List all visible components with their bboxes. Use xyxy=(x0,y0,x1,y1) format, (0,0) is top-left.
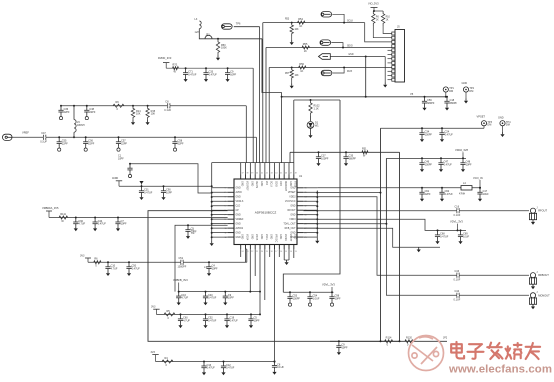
svg-text:DM: DM xyxy=(506,124,510,127)
capacitor C50 0.47UF xyxy=(126,262,131,271)
svg-text:0.47UF: 0.47UF xyxy=(445,193,454,196)
resistor R10 1K xyxy=(381,11,384,26)
capacitor C16b 0.1UF series xyxy=(457,208,459,213)
svg-text:GND: GND xyxy=(290,206,295,208)
svg-text:ADF5610BCCZ: ADF5610BCCZ xyxy=(255,211,277,215)
svg-text:GND: GND xyxy=(270,234,272,239)
testpoint oval MUX xyxy=(321,70,332,75)
wire U1 bottom pin risers xyxy=(240,249,242,257)
inductor L5 180NH xyxy=(74,106,76,138)
svg-text:1.1K: 1.1K xyxy=(314,108,319,111)
capacitor C10 4.7UF xyxy=(105,262,110,271)
svg-text:R57: R57 xyxy=(285,73,290,75)
capacitor C36 22PF xyxy=(58,106,63,115)
capacitor C90b 10PF xyxy=(185,225,190,234)
svg-text:C47: C47 xyxy=(41,132,46,135)
svg-text:DM: DM xyxy=(487,124,491,127)
power tick VIO xyxy=(371,7,378,9)
wire VPSET trunk xyxy=(317,192,380,194)
svg-text:100PF: 100PF xyxy=(293,297,301,300)
svg-text:VREF: VREF xyxy=(22,131,29,135)
svg-text:1K: 1K xyxy=(299,25,302,28)
wire row3 gnd xyxy=(330,56,385,58)
svg-text:1uH: 1uH xyxy=(195,31,200,34)
capacitor C5 10PF xyxy=(248,314,253,323)
wire left pin rows to collector xyxy=(212,187,228,189)
svg-text:0.1UF: 0.1UF xyxy=(277,366,284,369)
svg-text:100K: 100K xyxy=(221,47,227,50)
capacitor C34 100PF xyxy=(419,128,424,137)
svg-text:10K: 10K xyxy=(136,113,141,116)
wire C1 spur xyxy=(130,164,212,193)
resistor R15 10K xyxy=(147,105,149,107)
svg-text:16: 16 xyxy=(280,251,282,253)
ground xyxy=(500,132,504,137)
wire xyxy=(291,36,293,40)
svg-text:0.47UF: 0.47UF xyxy=(209,73,218,76)
svg-text:10PF: 10PF xyxy=(230,73,236,76)
capacitor C37 100PF xyxy=(316,152,321,161)
resistor R14 10K xyxy=(132,105,134,107)
capacitor C80 0.1UF xyxy=(274,361,276,363)
svg-text:100PF: 100PF xyxy=(321,157,329,160)
svg-text:0.47UF: 0.47UF xyxy=(98,223,107,226)
svg-text:SDIO: SDIO xyxy=(347,45,353,47)
U1 bottom pin stubs xyxy=(241,245,294,250)
capacitor C9 10PF xyxy=(225,68,230,77)
wire riser bundle xyxy=(245,106,247,163)
wire VDVL rail xyxy=(283,291,333,293)
svg-text:R111: R111 xyxy=(60,213,66,216)
svg-text:VGND: VGND xyxy=(284,234,286,241)
wire rail A xyxy=(290,151,400,153)
svg-text:10PF: 10PF xyxy=(212,267,218,270)
svg-text:TDAL_OUT: TDAL_OUT xyxy=(283,223,296,226)
wire gnd pair xyxy=(284,259,289,261)
wire VPSET rail xyxy=(381,127,485,129)
svg-text:0.1UF: 0.1UF xyxy=(164,109,171,112)
watermark text dianzifashaoyou xyxy=(451,342,464,359)
testpoint TP3 xyxy=(481,121,486,126)
svg-text:JP2: JP2 xyxy=(443,336,448,339)
svg-text:R70: R70 xyxy=(173,64,178,67)
wire VREF rail xyxy=(12,136,256,138)
wire 1000pf link xyxy=(147,261,149,263)
connector J2 RFBOUT xyxy=(529,273,536,285)
svg-text:V5: V5 xyxy=(410,92,414,96)
svg-text:10PF: 10PF xyxy=(121,223,127,226)
capacitor C69 10UF xyxy=(458,230,463,239)
svg-text:AVDD: AVDD xyxy=(112,177,119,180)
wire VDVL trunk xyxy=(283,100,340,292)
svg-text:38: 38 xyxy=(246,173,248,175)
wire MONOUT trunk xyxy=(303,224,529,296)
wire xyxy=(246,249,248,262)
wire VDD2 rail xyxy=(386,157,466,159)
wire AVDD row xyxy=(119,185,212,187)
svg-text:0.1UF: 0.1UF xyxy=(40,141,47,144)
svg-text:RFB_OUT: RFB_OUT xyxy=(285,228,296,230)
watermark logo circle xyxy=(409,336,444,371)
svg-text:10PF: 10PF xyxy=(342,346,348,349)
svg-text:SDIO: SDIO xyxy=(274,181,276,187)
wire bottom rail right xyxy=(330,340,447,342)
capacitor C35 680PF xyxy=(343,152,348,161)
wire left gnd collector xyxy=(211,163,213,241)
svg-text:18: 18 xyxy=(270,251,272,253)
svg-text:22PF: 22PF xyxy=(62,142,68,145)
U1 top pin stubs xyxy=(241,175,294,180)
svg-text:RFBOUT: RFBOUT xyxy=(538,273,549,277)
capacitor C90c 10PF xyxy=(223,292,228,301)
wire xyxy=(373,26,392,38)
svg-text:GND: GND xyxy=(294,234,296,239)
svg-text:VDVL: VDVL xyxy=(265,234,267,241)
svg-text:VPSET: VPSET xyxy=(288,192,296,194)
svg-text:GND: GND xyxy=(241,181,243,186)
svg-text:0.47UF: 0.47UF xyxy=(144,191,153,194)
svg-text:10PF: 10PF xyxy=(118,158,124,161)
ground xyxy=(417,247,421,252)
ground xyxy=(285,260,289,265)
ground xyxy=(216,56,220,61)
svg-text:0.47UF: 0.47UF xyxy=(208,297,217,300)
ground xyxy=(464,99,468,104)
svg-text:0.1UF: 0.1UF xyxy=(454,278,461,281)
capacitor C51 1000PF series xyxy=(181,260,183,265)
svg-text:48: 48 xyxy=(295,173,297,175)
svg-text:VRFB: VRFB xyxy=(255,234,257,241)
resistor R4 0 xyxy=(162,360,173,363)
svg-text:1K: 1K xyxy=(300,70,303,73)
capacitor C14 4.7UF xyxy=(73,218,78,227)
svg-text:C51: C51 xyxy=(179,257,184,260)
wire VRBDFA rail xyxy=(49,217,228,219)
connector P1 VREF input xyxy=(3,134,13,140)
svg-text:VDD2_3V8: VDD2_3V8 xyxy=(455,148,469,152)
capacitor C98 10PF xyxy=(329,292,334,301)
svg-text:0.47UF: 0.47UF xyxy=(226,367,235,370)
svg-text:GND: GND xyxy=(236,224,241,226)
wire xyxy=(199,29,262,39)
svg-text:GND: GND xyxy=(236,237,241,239)
svg-text:GND: GND xyxy=(250,234,252,239)
svg-text:22PF: 22PF xyxy=(64,111,70,114)
svg-text:GND: GND xyxy=(279,234,281,239)
svg-text:22PF: 22PF xyxy=(121,142,127,145)
U1 left pin stubs xyxy=(228,188,234,237)
capacitor C52 0.47UF xyxy=(203,314,208,323)
svg-text:47NH: 47NH xyxy=(459,193,465,196)
svg-text:10K: 10K xyxy=(295,75,300,77)
svg-text:0.47UF: 0.47UF xyxy=(445,133,454,136)
svg-text:VDD4: VDD4 xyxy=(245,234,247,241)
svg-text:VPSET: VPSET xyxy=(477,115,486,119)
capacitor C47 0.1UF series xyxy=(44,135,46,140)
svg-text:AVDD: AVDD xyxy=(236,191,243,194)
capacitor C19 0.47UF xyxy=(224,314,229,323)
svg-text:R55: R55 xyxy=(303,43,308,46)
testpoint oval SDIO xyxy=(320,40,331,45)
capacitor C8 0.1UF series xyxy=(168,103,170,108)
wire header stubs xyxy=(388,49,392,51)
svg-text:15: 15 xyxy=(285,251,287,253)
svg-text:20: 20 xyxy=(261,251,263,253)
svg-text:22: 22 xyxy=(251,251,253,253)
svg-text:J: J xyxy=(536,272,537,274)
wire RVDD rail xyxy=(166,67,253,69)
svg-text:10PF: 10PF xyxy=(191,230,197,233)
wire TP6 to riser xyxy=(234,26,260,28)
svg-text:4.7UF: 4.7UF xyxy=(78,223,85,226)
resistor R53 pulldown xyxy=(291,22,293,24)
svg-text:MUX: MUX xyxy=(347,71,353,73)
svg-text:3V3: 3V3 xyxy=(151,351,156,354)
wire VRBFB rail xyxy=(179,291,260,293)
svg-text:VBATT: VBATT xyxy=(289,234,292,242)
svg-text:0.47UF: 0.47UF xyxy=(208,320,217,323)
svg-text:24: 24 xyxy=(242,251,244,253)
svg-text:17: 17 xyxy=(275,251,277,253)
wire rail A trunk xyxy=(399,152,401,341)
svg-text:VDDLS: VDDLS xyxy=(236,201,244,203)
svg-text:R120: R120 xyxy=(406,337,413,340)
capacitor C12 0.47UF xyxy=(221,362,226,371)
wire row1 SCLK xyxy=(263,22,365,24)
svg-text:GND: GND xyxy=(289,181,291,186)
wire big loop left xyxy=(148,211,400,342)
ground xyxy=(131,120,135,125)
resistor R70 series xyxy=(173,67,179,70)
capacitor C95 10PF xyxy=(336,341,341,350)
svg-text:VRBDFA_3V5: VRBDFA_3V5 xyxy=(42,206,59,210)
ground xyxy=(210,241,214,246)
svg-text:1K: 1K xyxy=(304,50,307,53)
svg-text:22PF: 22PF xyxy=(178,142,184,145)
wire row2 SDIO xyxy=(266,47,392,49)
wire JP1 trunk xyxy=(262,39,282,93)
resistor R50 100K xyxy=(216,39,219,56)
power arrow xyxy=(139,181,143,184)
svg-text:0.47UF: 0.47UF xyxy=(188,73,197,76)
wire row1 to header xyxy=(365,23,392,42)
wire R5 rail xyxy=(156,313,260,315)
wire VTUNE row xyxy=(303,219,466,230)
ground xyxy=(308,133,312,138)
svg-text:VDVL_3V3: VDVL_3V3 xyxy=(322,283,335,287)
svg-text:GND: GND xyxy=(241,234,243,239)
capacitor C62 0.47UF xyxy=(439,188,444,197)
resistor R57 pulldown xyxy=(291,67,293,69)
svg-text:10UF: 10UF xyxy=(463,236,470,239)
svg-text:R53: R53 xyxy=(285,19,290,21)
svg-text:VCO_IN: VCO_IN xyxy=(473,176,483,180)
svg-text:GND: GND xyxy=(290,215,295,217)
testpoint pennant GND xyxy=(319,54,331,60)
capacitor C60 4.7UF xyxy=(178,314,183,323)
svg-text:GND: GND xyxy=(260,234,262,239)
svg-text:GND: GND xyxy=(462,82,468,85)
wire row4 MUXOUT xyxy=(269,67,392,69)
svg-text:22PF: 22PF xyxy=(88,142,94,145)
capacitor C46 100PF xyxy=(419,158,424,167)
svg-text:21: 21 xyxy=(256,251,258,253)
svg-text:43: 43 xyxy=(270,173,272,175)
svg-text:45: 45 xyxy=(280,173,282,175)
svg-text:VDD3: VDD3 xyxy=(289,219,296,221)
svg-text:10PF: 10PF xyxy=(166,191,172,194)
svg-text:0.47UF: 0.47UF xyxy=(207,367,216,370)
wire V5 trunk xyxy=(282,96,446,98)
svg-text:22PF: 22PF xyxy=(89,111,95,114)
svg-text:0.47UF: 0.47UF xyxy=(444,163,453,166)
svg-text:J: J xyxy=(536,292,537,294)
svg-text:10PF: 10PF xyxy=(335,297,341,300)
node on JP1 rail xyxy=(217,38,219,40)
resistor R55 series row2 xyxy=(302,46,310,49)
svg-text:GND: GND xyxy=(236,233,241,235)
svg-text:SCLK: SCLK xyxy=(347,21,353,23)
svg-text:1.0UF: 1.0UF xyxy=(313,297,320,300)
capacitor C44 0.1UF series xyxy=(457,293,459,298)
capacitor C20 0.47UF xyxy=(93,218,98,227)
svg-text:VREGC: VREGC xyxy=(274,234,276,243)
svg-text:VDVL_3V3: VDVL_3V3 xyxy=(450,220,463,224)
wire RFOUT row xyxy=(303,210,529,212)
svg-text:VRBFB_3V3: VRBFB_3V3 xyxy=(173,278,188,282)
capacitor C55 22PF xyxy=(57,137,62,146)
svg-text:J: J xyxy=(536,207,537,209)
svg-text:3V3: 3V3 xyxy=(80,254,85,257)
svg-text:R31: R31 xyxy=(362,148,367,151)
capacitor C4 10PF xyxy=(206,262,211,271)
capacitor C59 680PF xyxy=(422,97,427,106)
capacitor C53 100PF xyxy=(287,292,292,301)
capacitor C13 0.47UF xyxy=(201,362,206,371)
ground xyxy=(315,239,319,244)
op-amp U1 ADF5610BCCZ body xyxy=(234,179,297,245)
wire gnd row riser xyxy=(365,57,367,97)
wire VCO row xyxy=(317,187,480,189)
wire gnd spur xyxy=(303,228,440,247)
svg-text:VDD2: VDD2 xyxy=(289,197,296,199)
svg-text:C16: C16 xyxy=(455,205,460,208)
wire VRBFB feed xyxy=(175,225,228,291)
svg-text:CP: CP xyxy=(236,210,240,212)
resistor R9 0 xyxy=(113,104,124,107)
resistor R5 0 xyxy=(164,313,175,316)
svg-text:10PF: 10PF xyxy=(228,297,234,300)
svg-text:DM: DM xyxy=(449,90,453,93)
U1 right pin stubs xyxy=(297,188,303,237)
svg-text:GND: GND xyxy=(348,54,353,56)
svg-text:1K: 1K xyxy=(376,19,379,21)
capacitor C61 22PF xyxy=(419,188,424,197)
capacitor C18 680PF xyxy=(444,97,449,106)
wire xyxy=(294,99,340,101)
wire fan-out bar above U1 xyxy=(212,162,294,164)
svg-text:GND: GND xyxy=(236,215,241,217)
capacitor C40 0.47UF xyxy=(203,292,208,301)
testpoint TP6 oval xyxy=(222,24,233,29)
svg-text:DM: DM xyxy=(469,90,473,93)
inductor L3 xyxy=(199,21,201,29)
svg-text:41: 41 xyxy=(261,173,263,175)
svg-text:0.1UF: 0.1UF xyxy=(454,299,461,302)
wire gnd drop xyxy=(384,57,386,83)
capacitor C16 4.7UF xyxy=(176,292,181,301)
svg-text:TP6: TP6 xyxy=(236,22,241,25)
wire VPSET vertical xyxy=(380,128,382,341)
svg-text:C43: C43 xyxy=(455,270,460,273)
svg-text:10UF: 10UF xyxy=(483,193,490,196)
svg-text:VIO: VIO xyxy=(265,181,267,185)
svg-text:VSSA: VSSA xyxy=(294,181,297,188)
svg-text:37: 37 xyxy=(242,173,244,175)
testpoint TP1 xyxy=(443,87,448,92)
inductor L4 xyxy=(461,186,472,190)
svg-text:R54: R54 xyxy=(298,18,303,21)
svg-text:10PF: 10PF xyxy=(254,320,260,323)
ground xyxy=(146,120,150,125)
ground xyxy=(290,84,294,89)
U1 left pin names xyxy=(236,188,244,239)
capacitor C48 10PF xyxy=(460,158,465,167)
resistor R60 0 xyxy=(94,261,101,264)
svg-text:GND: GND xyxy=(290,188,295,190)
svg-text:40: 40 xyxy=(256,173,258,175)
svg-text:46: 46 xyxy=(285,173,287,175)
resistor R114 0 xyxy=(385,340,393,343)
svg-text:42: 42 xyxy=(266,173,268,175)
resistor R120 0 xyxy=(405,340,413,343)
svg-text:19: 19 xyxy=(266,251,268,253)
svg-text:39: 39 xyxy=(251,173,253,175)
wire right gnd collector xyxy=(316,191,318,239)
svg-text:R10: R10 xyxy=(386,17,391,19)
capacitor C1 10PF xyxy=(127,164,132,173)
wire RFBOUT trunk xyxy=(303,197,529,275)
svg-text:CSB: CSB xyxy=(279,181,281,186)
capacitor C33 0.47UF xyxy=(203,68,208,77)
svg-text:4.7UF: 4.7UF xyxy=(183,320,190,323)
svg-text:RVDD_3V3: RVDD_3V3 xyxy=(158,56,172,60)
svg-text:GND: GND xyxy=(236,197,241,199)
connector J5 header xyxy=(395,30,405,83)
svg-text:MONOUT: MONOUT xyxy=(538,293,550,297)
capacitor C17 10UF xyxy=(477,188,482,197)
svg-text:1000PF: 1000PF xyxy=(178,266,187,269)
resistor R6 1K xyxy=(372,11,375,26)
svg-text:0.1UF: 0.1UF xyxy=(454,214,461,217)
svg-text:13: 13 xyxy=(295,251,297,253)
resistor R102 1.1K xyxy=(309,100,312,116)
resistor R111 0 xyxy=(59,216,68,219)
svg-text:JP1: JP1 xyxy=(206,34,211,37)
capacitor C56 22PF xyxy=(83,137,88,146)
connector J1 RFOUT xyxy=(529,208,536,220)
svg-text:680PF: 680PF xyxy=(450,102,458,105)
svg-text:4.7UF: 4.7UF xyxy=(181,297,188,300)
svg-text:GND: GND xyxy=(250,181,252,186)
wire R4 rail xyxy=(156,361,275,363)
svg-text:RFOUT: RFOUT xyxy=(538,209,547,213)
capacitor C58 22PF xyxy=(172,137,177,146)
svg-text:REFIN: REFIN xyxy=(255,181,257,188)
resistor R56 series row4 xyxy=(299,66,306,69)
capacitor C90 10PF xyxy=(161,186,166,195)
svg-text:R114: R114 xyxy=(386,337,392,340)
